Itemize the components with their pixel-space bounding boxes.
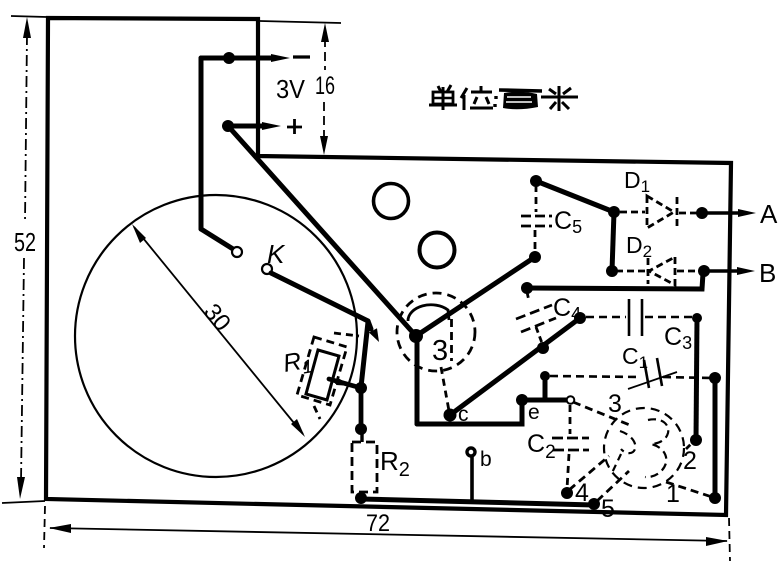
dashed net C1 row xyxy=(540,371,550,381)
switch K contact 1 xyxy=(232,247,242,257)
svg-text:3: 3 xyxy=(608,390,622,418)
terminal A xyxy=(696,207,708,219)
wire R1 to node xyxy=(329,379,361,388)
trace C1 down to pin1 xyxy=(713,378,718,498)
wire node to R2 xyxy=(359,388,364,429)
battery minus node xyxy=(223,52,235,64)
terminal B xyxy=(698,265,710,277)
svg-text:16: 16 xyxy=(315,72,335,100)
node e xyxy=(516,394,528,406)
trace C3 down to pin2 xyxy=(696,318,697,440)
pin 3 lead xyxy=(573,402,632,426)
pin 2 lead xyxy=(686,441,694,449)
diode D1 xyxy=(620,196,699,228)
hole 2 xyxy=(420,233,455,268)
resistor R2 xyxy=(355,423,367,435)
svg-text:72: 72 xyxy=(366,510,390,537)
node R1/R2 xyxy=(355,382,367,394)
resistor R1 xyxy=(297,333,359,419)
plus symbol xyxy=(287,119,302,134)
main junction node xyxy=(409,329,423,343)
svg-text:4: 4 xyxy=(575,479,589,507)
wire diode column xyxy=(612,212,614,271)
capacitor C4 xyxy=(516,292,556,343)
capacitor C2 xyxy=(567,396,575,404)
transistor V2 (bottom, dashed outline) xyxy=(604,408,684,488)
transistor V1 (top, dashed outline) xyxy=(397,293,475,411)
svg-text:B: B xyxy=(759,258,776,288)
wire junction to C5 xyxy=(416,257,535,336)
board outline xyxy=(46,18,731,515)
dimension 52 (left) xyxy=(2,16,47,503)
capacitor C3 xyxy=(629,299,642,336)
minus symbol xyxy=(293,55,310,58)
wire c to C4 diagonal xyxy=(450,318,580,415)
dashed net C3 row xyxy=(586,316,694,319)
pin 1 lead xyxy=(666,482,712,497)
switch K contact 2 xyxy=(262,264,272,274)
wire C5 to diodes xyxy=(536,181,614,212)
svg-text:5: 5 xyxy=(601,495,615,523)
battery plus wire xyxy=(228,126,416,336)
battery minus wire xyxy=(201,58,275,249)
capacitor C1 xyxy=(628,358,677,389)
dimension 16 (top) xyxy=(260,21,341,140)
node b with stem xyxy=(467,448,475,456)
svg-text:52: 52 xyxy=(14,227,36,257)
svg-text:2: 2 xyxy=(683,447,697,475)
unit label 单位:毫米 xyxy=(429,85,578,111)
svg-text:3: 3 xyxy=(432,335,448,367)
hole 1 xyxy=(374,184,409,219)
svg-text:K: K xyxy=(267,239,286,269)
trace C4 to B node xyxy=(527,273,703,289)
pin 5 lead and node xyxy=(588,498,600,510)
svg-text:1: 1 xyxy=(666,480,680,508)
bottom ground trace xyxy=(361,499,594,505)
svg-text:e: e xyxy=(528,401,540,424)
dimension 72 (bottom) xyxy=(44,506,730,561)
wire junction down and right to e xyxy=(417,336,567,424)
diode D2 xyxy=(616,257,700,285)
wire from K to R1 area xyxy=(271,273,371,387)
big circle (30mm speaker hole) xyxy=(75,195,357,477)
capacitor C5 xyxy=(521,185,552,253)
battery plus node xyxy=(222,120,234,132)
pin 4 lead and node xyxy=(561,487,573,499)
svg-text:b: b xyxy=(480,448,492,471)
svg-text:A: A xyxy=(760,199,778,229)
svg-text:3V: 3V xyxy=(276,74,306,104)
diameter line 30 xyxy=(132,224,305,437)
node c xyxy=(444,409,457,422)
